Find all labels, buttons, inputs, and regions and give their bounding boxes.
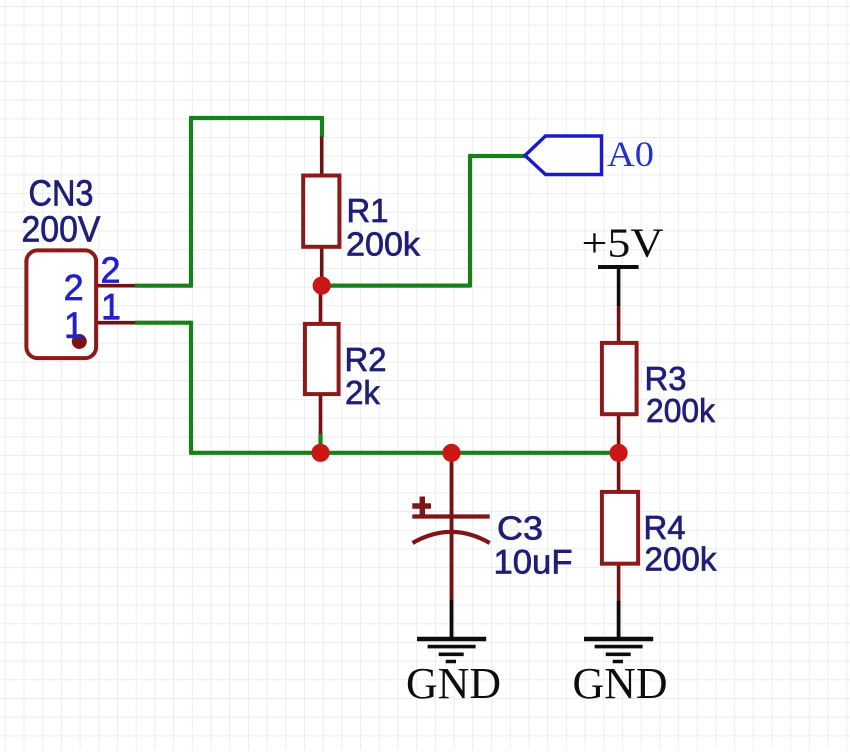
wire left vertical down	[189, 321, 193, 453]
connector CN3	[26, 250, 135, 358]
svg-text:10uF: 10uF	[494, 544, 573, 582]
net name A0	[607, 134, 654, 174]
label R2	[345, 341, 387, 378]
svg-text:A0: A0	[607, 134, 654, 174]
label R1	[347, 192, 389, 229]
pin number 1 (outer)	[101, 286, 121, 327]
svg-text:200V: 200V	[22, 209, 101, 250]
wire pin2-to-corner	[135, 284, 191, 288]
label R4	[644, 509, 686, 546]
svg-text:GND: GND	[406, 659, 501, 708]
value 200k (R1)	[346, 226, 421, 263]
svg-text:R1: R1	[347, 192, 389, 229]
junction R2-bottom	[311, 444, 329, 462]
value 200k (R3)	[646, 392, 715, 429]
svg-text:CN3: CN3	[29, 173, 94, 214]
ground (R4)	[584, 601, 653, 662]
wire R2-bottom stub	[318, 433, 322, 453]
pin number 2 (outer)	[100, 250, 120, 291]
svg-text:200k: 200k	[346, 226, 421, 263]
junction R3-R4	[610, 444, 628, 462]
svg-text:+5V: +5V	[582, 220, 664, 266]
svg-text:1: 1	[101, 286, 121, 327]
resistor R1	[303, 137, 339, 286]
net label flag A0	[525, 136, 602, 175]
svg-text:R2: R2	[345, 341, 387, 378]
junction R1-mid	[313, 277, 331, 295]
svg-text:200k: 200k	[645, 541, 717, 578]
junction C3-top	[442, 444, 460, 462]
svg-text:200k: 200k	[646, 392, 715, 429]
svg-text:2: 2	[64, 267, 84, 308]
label +5V	[582, 220, 664, 266]
resistor R4	[602, 453, 638, 601]
value 10uF	[494, 544, 573, 582]
ground (C3)	[417, 600, 486, 662]
label R3	[645, 360, 687, 397]
wire drop to R1	[320, 116, 324, 137]
wire pin1-to-corner	[135, 321, 191, 325]
label C3	[497, 510, 543, 547]
svg-text:C3: C3	[497, 510, 543, 547]
pin name 1 (inner)	[64, 305, 84, 346]
wire A0 vertical	[468, 156, 472, 288]
wire A0 horizontal	[468, 154, 525, 158]
pin name 2 (inner)	[64, 267, 84, 308]
wire R1-mid horizontal	[322, 284, 470, 288]
label GND (R4)	[573, 659, 668, 708]
power flag +5V	[598, 267, 639, 306]
wire left vertical up	[189, 118, 193, 288]
label GND (C3)	[406, 659, 501, 708]
wire bottom bus	[189, 451, 618, 455]
resistor R3	[602, 306, 637, 453]
svg-text:GND: GND	[573, 659, 668, 708]
value 2k	[345, 374, 380, 411]
svg-text:2k: 2k	[345, 374, 380, 411]
capacitor C3	[412, 453, 489, 600]
svg-text:1: 1	[64, 305, 84, 346]
wire top horizontal	[189, 116, 322, 120]
svg-text:2: 2	[100, 250, 120, 291]
resistor R2	[305, 286, 339, 434]
value 200k (R4)	[645, 541, 717, 578]
value 200V	[22, 209, 101, 250]
label CN3	[29, 173, 94, 214]
